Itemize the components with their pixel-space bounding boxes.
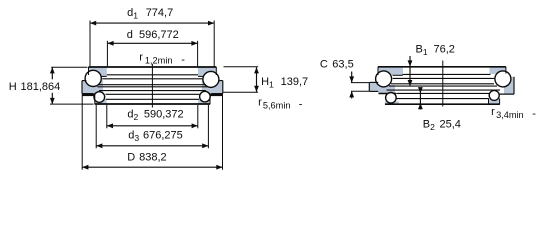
svg-text:r: r [139, 51, 143, 63]
svg-text:5,6min: 5,6min [263, 101, 291, 111]
svg-text:-: - [181, 54, 185, 66]
svg-text:3,4min: 3,4min [496, 110, 524, 120]
svg-text:r: r [491, 106, 495, 118]
svg-text:-: - [299, 99, 303, 111]
svg-text:d: d [127, 29, 133, 41]
svg-text:596,772: 596,772 [139, 29, 179, 41]
svg-text:1,2min: 1,2min [145, 56, 173, 66]
svg-text:63,5: 63,5 [332, 58, 353, 70]
svg-text:H: H [9, 81, 17, 93]
svg-text:r: r [258, 96, 262, 108]
svg-text:76,2: 76,2 [434, 44, 455, 56]
svg-text:590,372: 590,372 [144, 108, 184, 120]
svg-text:676,275: 676,275 [143, 129, 183, 141]
svg-text:25,4: 25,4 [440, 119, 461, 131]
svg-text:774,7: 774,7 [146, 7, 174, 19]
svg-text:181,864: 181,864 [21, 81, 61, 93]
svg-text:-: - [532, 108, 536, 120]
svg-text:139,7: 139,7 [281, 76, 309, 88]
svg-text:D: D [127, 151, 135, 163]
svg-text:C: C [320, 58, 328, 70]
svg-text:838,2: 838,2 [139, 151, 167, 163]
